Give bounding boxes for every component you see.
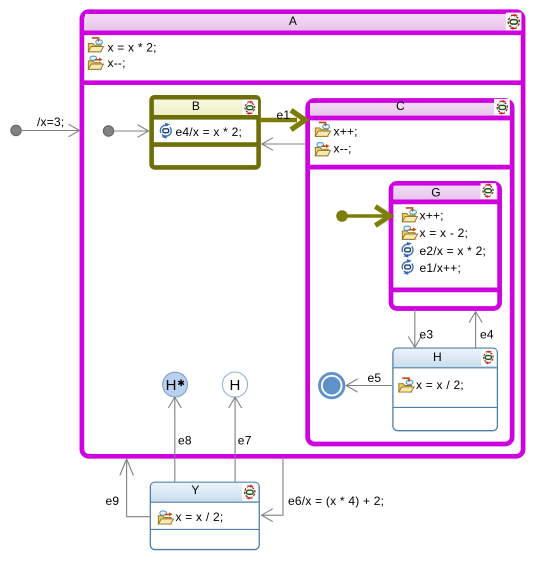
state A exit reaction: x--; — [88, 56, 125, 70]
svg-text:x--;: x--; — [108, 56, 126, 70]
initial state (inside C) — [336, 210, 348, 222]
transition A to Y: e6/x = (x * 4) + 2; — [262, 457, 385, 522]
state C header — [308, 99, 513, 118]
svg-text:x = x * 2;: x = x * 2; — [108, 41, 157, 55]
state G header sync icon — [481, 183, 497, 199]
state A outline — [82, 12, 523, 457]
state Y header — [151, 483, 259, 502]
svg-text:Y: Y — [191, 483, 199, 497]
state A header — [82, 14, 523, 33]
initial state (inside A) — [103, 126, 113, 136]
svg-text:x++;: x++; — [420, 209, 444, 223]
svg-text:x--;: x--; — [334, 142, 352, 156]
state B header — [152, 99, 259, 117]
state C local reactions separator — [308, 165, 513, 170]
svg-text:e4: e4 — [480, 328, 494, 342]
svg-text:H: H — [229, 377, 240, 394]
transition Y to shallow history: e7 — [229, 397, 252, 481]
final state (inside C) — [320, 373, 344, 397]
deep history node H* — [163, 372, 188, 397]
svg-text:e1/x++;: e1/x++; — [420, 261, 462, 275]
svg-text:x = x / 2;: x = x / 2; — [176, 510, 224, 524]
transition Y to A: e9 — [106, 459, 150, 517]
transition H to final: e5 — [346, 371, 392, 392]
state G local reaction: e1/x++; — [402, 259, 461, 275]
state G compartment separator — [391, 288, 500, 293]
svg-text:x++;: x++; — [334, 125, 358, 139]
transition Y to deep history: e8 — [168, 397, 192, 481]
svg-text:C: C — [396, 99, 405, 113]
svg-text:A: A — [289, 14, 297, 28]
state H header — [394, 349, 497, 368]
state A header sync icon — [506, 13, 522, 31]
svg-text:x = x / 2;: x = x / 2; — [416, 378, 464, 392]
svg-text:e9: e9 — [106, 494, 120, 508]
svg-text:x = x - 2;: x = x - 2; — [420, 226, 469, 240]
state G entry reaction: x++; — [402, 208, 443, 223]
state B compartment separator — [152, 142, 259, 147]
state B header sync icon — [242, 100, 258, 115]
state Y exit reaction: x = x / 2; — [158, 510, 223, 524]
svg-text:e6/x = (x * 4) + 2;: e6/x = (x * 4) + 2; — [288, 494, 384, 508]
transition initial to B — [114, 125, 149, 138]
initial state (outermost) — [11, 125, 21, 135]
svg-text:H: H — [166, 377, 177, 394]
state G header — [391, 186, 500, 202]
transition initial to A: /x=3; — [21, 115, 79, 137]
svg-text:e1: e1 — [277, 108, 291, 122]
state Y header sync icon — [242, 484, 258, 501]
state A local reactions separator — [82, 80, 523, 85]
state Y outline — [150, 482, 259, 549]
state G exit reaction: x = x - 2; — [402, 226, 468, 240]
shallow history node H — [222, 372, 247, 397]
svg-text:e4/x = x * 2;: e4/x = x * 2; — [176, 125, 243, 139]
svg-text:H: H — [433, 350, 442, 364]
state H header sync icon — [481, 350, 496, 366]
state G local reaction: e2/x = x * 2; — [402, 242, 486, 258]
svg-text:/x=3;: /x=3; — [37, 115, 64, 129]
transition C to B — [262, 138, 306, 151]
svg-text:e5: e5 — [368, 371, 382, 385]
transition G to H: e3 — [408, 309, 433, 347]
state A entry reaction: x = x * 2; — [88, 38, 156, 55]
state H outline — [393, 348, 498, 431]
state C outline — [308, 101, 513, 445]
svg-text:e7: e7 — [238, 433, 252, 447]
state Y compartment separator — [151, 528, 259, 530]
state B outline — [152, 97, 259, 167]
svg-text:G: G — [431, 186, 441, 200]
state H entry reaction: x = x / 2; — [399, 378, 464, 392]
state G outline — [391, 183, 500, 308]
state C exit reaction: x--; — [315, 142, 351, 156]
transition B to C: e1 — [261, 108, 305, 130]
svg-text:e8: e8 — [178, 433, 192, 447]
state C header sync icon — [494, 99, 510, 115]
state B local reaction: e4/x = x * 2; — [160, 123, 242, 139]
svg-text:B: B — [192, 99, 200, 113]
transition initial to G — [342, 207, 390, 226]
transition H to G: e4 — [469, 312, 494, 348]
svg-text:e3: e3 — [420, 328, 434, 342]
state H compartment separator — [394, 406, 497, 408]
svg-text:e2/x = x * 2;: e2/x = x * 2; — [420, 244, 487, 258]
state C entry reaction: x++; — [315, 122, 357, 138]
